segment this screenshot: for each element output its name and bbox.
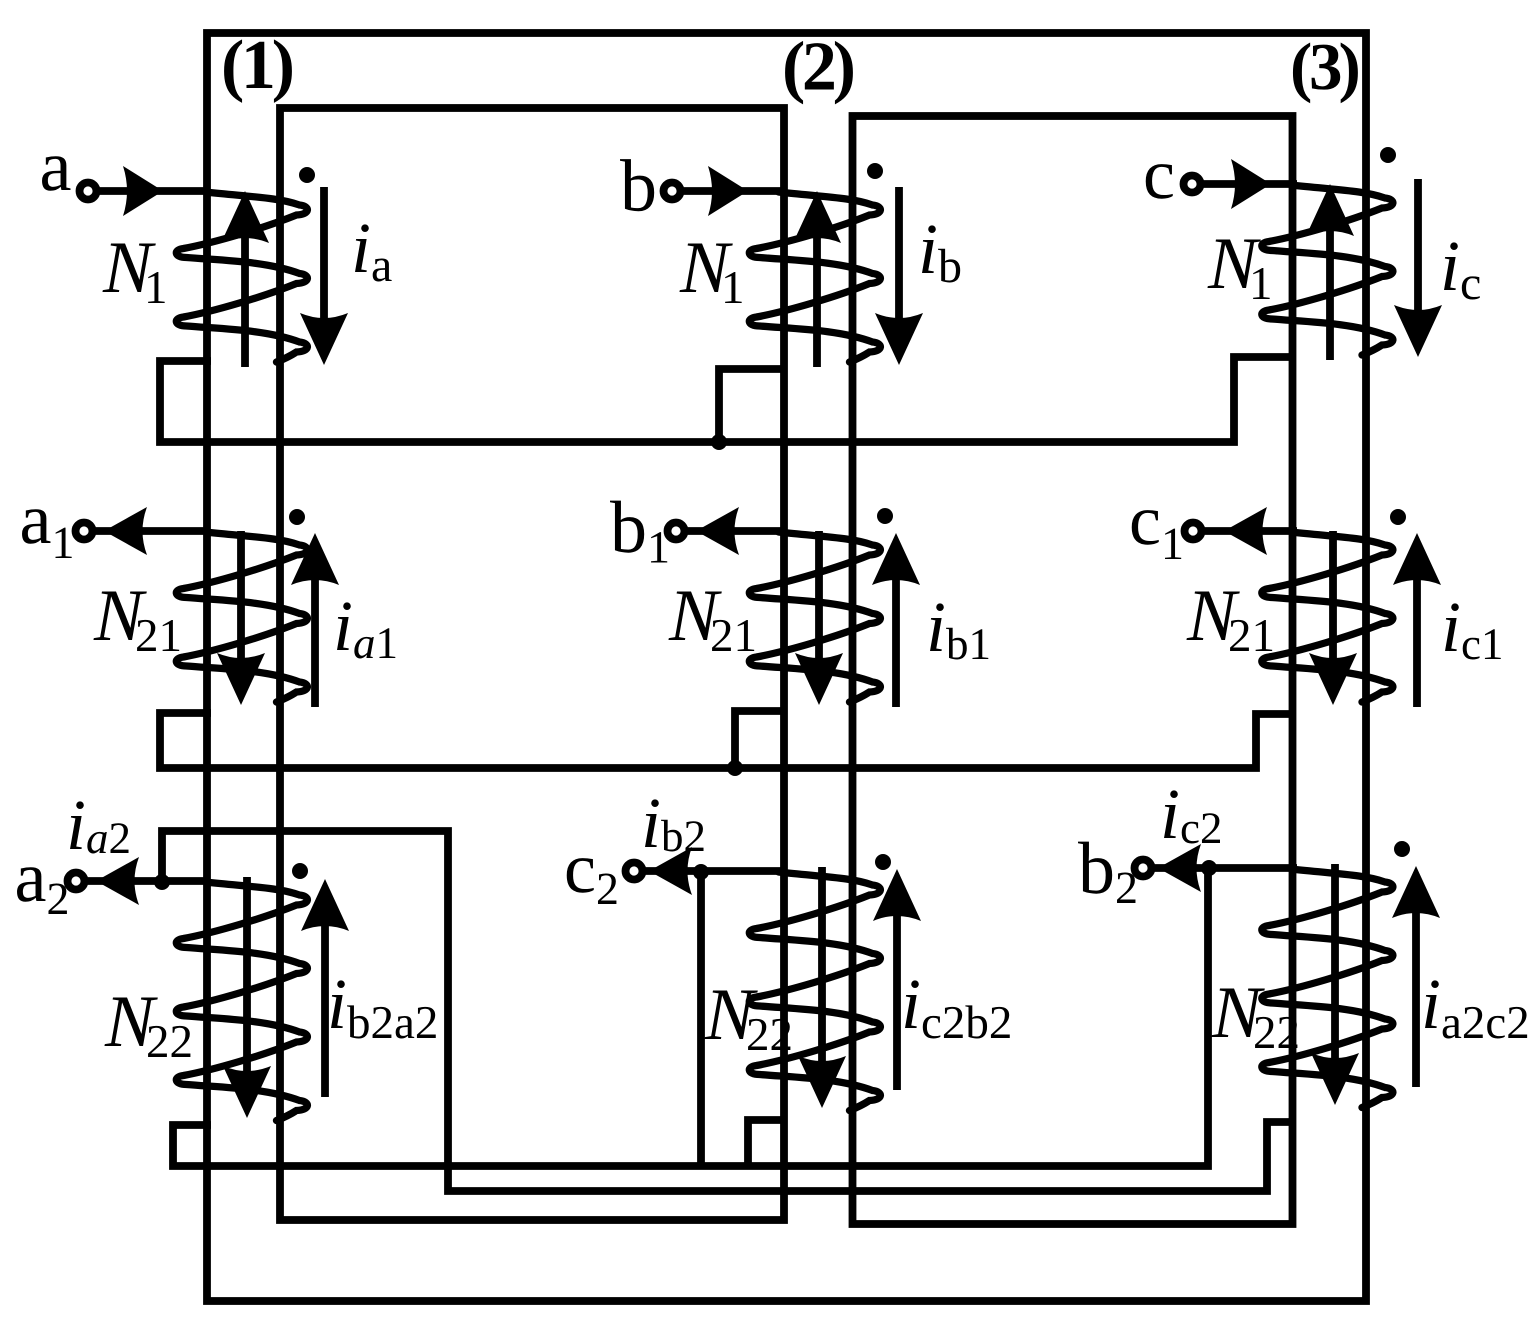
terminal c1: [1185, 523, 1202, 540]
arrow flux up: [1306, 184, 1354, 360]
arrow flux down: [217, 531, 265, 705]
wire row1 neutral bus: [160, 357, 1296, 442]
arrow current into terminal c2: [649, 847, 692, 895]
label terminal c2: [567, 858, 617, 904]
polarity dot: [292, 863, 308, 879]
arrow flux down: [795, 531, 843, 705]
wire terminal b2: [1151, 864, 1297, 872]
arrow current into terminal c1: [1224, 507, 1267, 555]
winding N22 phase b: [749, 872, 880, 1111]
label N21 phase a: [93, 592, 179, 651]
core loop (3) inner-right frame: [853, 116, 1293, 1224]
arrow current up: [291, 533, 339, 707]
arrow current down: [875, 187, 923, 365]
wire terminal c: [1200, 180, 1297, 188]
terminal c: [1184, 176, 1201, 193]
arrow current up: [301, 879, 349, 1097]
label current i_c2: [1164, 790, 1220, 843]
label N22 phase b: [704, 991, 790, 1050]
arrow current up: [1392, 866, 1440, 1087]
label N1 phase a: [102, 244, 164, 303]
label N21 phase c: [1186, 592, 1272, 651]
label current i_b2: [645, 799, 704, 851]
label terminal a2: [17, 867, 67, 914]
junction c2 wire: [693, 864, 709, 880]
winding N1 phase a: [176, 192, 307, 362]
wire row2 limb2 riser: [735, 711, 784, 768]
winding N22 phase c: [1262, 869, 1393, 1108]
label terminal b: [620, 159, 654, 211]
label current i_c2b2: [905, 980, 1010, 1038]
terminal a: [80, 183, 97, 200]
label current i_a: [355, 224, 392, 281]
polarity dot: [1380, 147, 1396, 163]
junction a2 wire: [154, 874, 170, 890]
wire row1 limb2 riser: [719, 369, 784, 442]
label current i_b1: [930, 603, 988, 659]
label terminal c: [1146, 164, 1173, 199]
wire a2 loop bus: [162, 831, 1296, 1191]
label terminal c1: [1132, 510, 1181, 559]
arrow flux up: [793, 191, 841, 367]
terminal b1: [668, 523, 685, 540]
wire row2 neutral bus: [160, 713, 1296, 768]
label N21 phase b: [668, 592, 754, 651]
wire terminal b1: [684, 527, 785, 535]
core loop (1) outer frame: [207, 33, 1366, 1301]
polarity dot: [875, 854, 891, 870]
terminal a1: [76, 523, 93, 540]
arrow flux down: [798, 867, 846, 1108]
polarity dot: [299, 167, 315, 183]
junction row1 bus: [711, 434, 727, 450]
arrow current into terminal b: [708, 166, 748, 216]
arrow flux up: [221, 191, 269, 367]
wire terminal b: [680, 187, 785, 195]
arrow flux down: [1309, 531, 1357, 705]
label limb (1): [224, 39, 292, 102]
label current i_b: [922, 225, 960, 282]
terminal b: [664, 183, 681, 200]
arrow current up: [1393, 533, 1441, 707]
arrow current into terminal b2: [1158, 844, 1201, 892]
label current i_a1: [337, 602, 395, 658]
arrow current into terminal a: [123, 166, 163, 216]
wire terminal a1: [92, 527, 209, 535]
label N22 phase c: [1211, 989, 1297, 1048]
label terminal b2: [1078, 842, 1135, 903]
arrow current into terminal a2: [96, 857, 139, 905]
arrow current down: [1394, 179, 1442, 357]
wire terminal c1: [1201, 527, 1297, 535]
winding N22 phase a: [176, 882, 307, 1121]
terminal a2: [68, 873, 85, 890]
polarity dot: [867, 163, 883, 179]
label terminal a1: [22, 509, 72, 558]
arrow current up: [873, 869, 921, 1090]
wire terminal c2: [642, 867, 785, 875]
polarity dot: [1390, 509, 1406, 525]
winding N1 phase b: [749, 192, 880, 362]
wire c2 drop: [697, 871, 705, 1166]
label N1 phase c: [1207, 240, 1269, 299]
label terminal b1: [610, 501, 667, 563]
arrow current up: [872, 533, 920, 707]
terminal c2: [626, 863, 643, 880]
winding N1 phase c: [1262, 185, 1393, 355]
label current i_c: [1444, 242, 1480, 299]
arrow current into terminal c: [1231, 159, 1271, 209]
polarity dot: [877, 508, 893, 524]
arrow current into terminal a1: [104, 507, 147, 555]
wire row3 limb2 winding bottom step: [748, 1120, 784, 1166]
polarity dot: [1394, 841, 1410, 857]
arrow current down: [300, 187, 348, 365]
terminal b2: [1135, 860, 1152, 877]
polarity dot: [289, 509, 305, 525]
winding N21 phase c: [1262, 532, 1393, 702]
arrow flux down: [1311, 864, 1359, 1105]
junction b2 wire: [1201, 860, 1217, 876]
winding N21 phase b: [749, 532, 880, 702]
winding N21 phase a: [176, 532, 307, 702]
wire terminal a2: [84, 877, 209, 885]
label N22 phase a: [104, 998, 190, 1057]
core loop (2) inner-left frame: [280, 108, 784, 1220]
label N1 phase b: [679, 244, 741, 303]
wire terminal a: [96, 187, 209, 195]
label limb (3): [1293, 43, 1358, 104]
label current i_c1: [1445, 603, 1501, 659]
arrow current into terminal b1: [696, 507, 739, 555]
label current i_b2a2: [331, 980, 436, 1038]
label terminal a: [42, 156, 70, 190]
junction row2 bus: [727, 760, 743, 776]
label current i_a2: [70, 801, 129, 853]
label limb (2): [785, 41, 853, 104]
label current i_a2c2: [1425, 980, 1527, 1038]
arrow flux down: [223, 877, 271, 1118]
wire row3 bus a2-b2: [173, 868, 1208, 1166]
